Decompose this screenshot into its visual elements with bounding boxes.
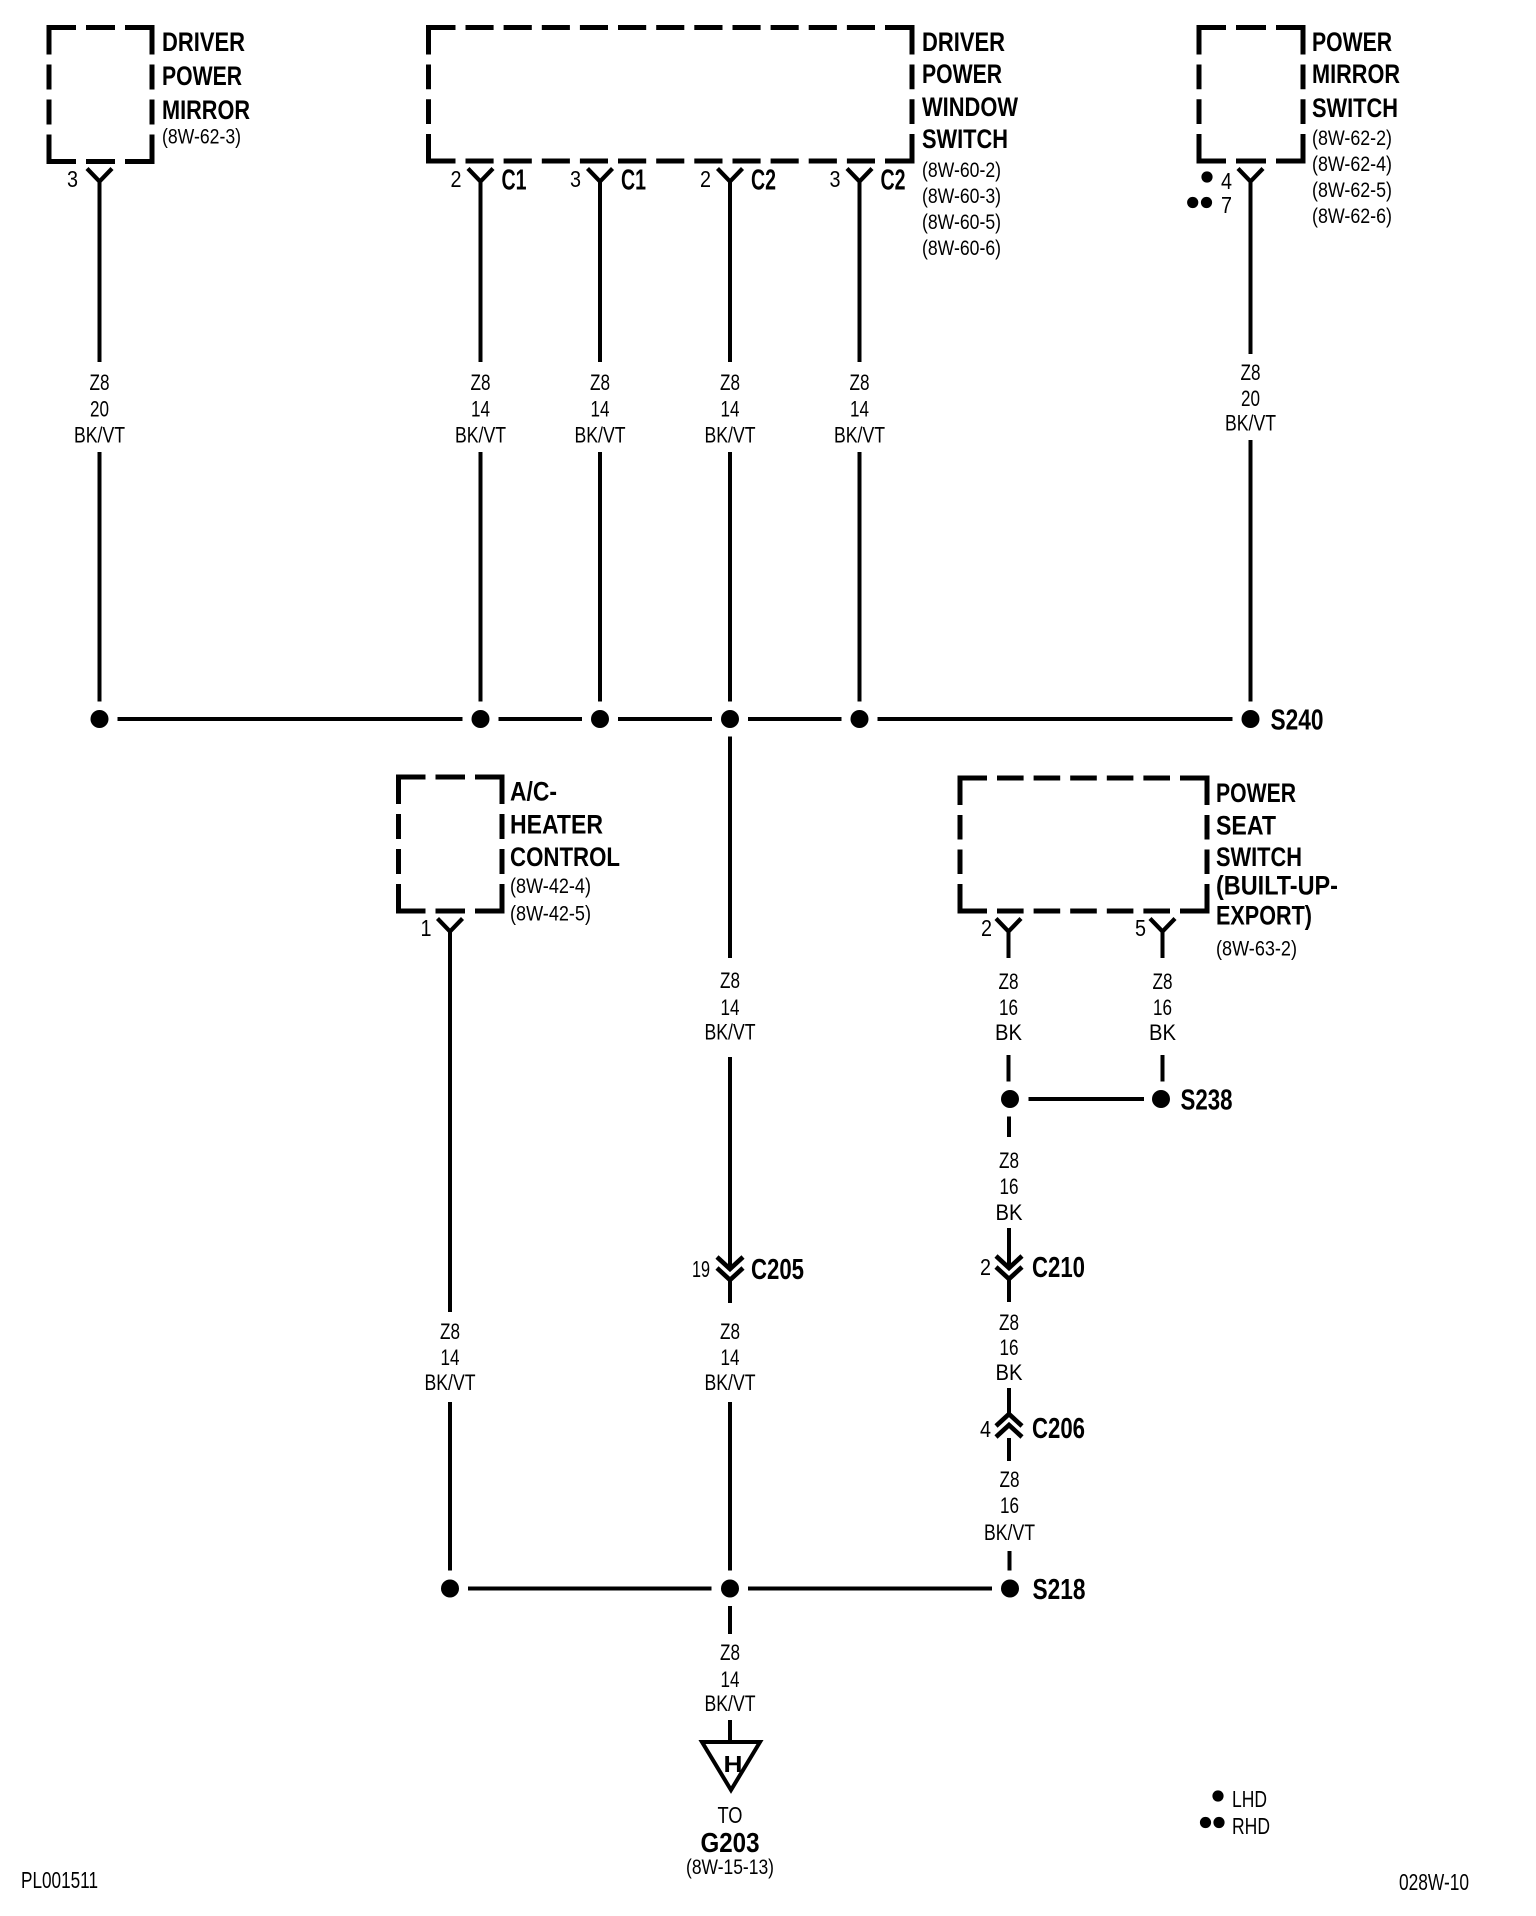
wire label Z8 14 BK/VT (below C205) [705, 1319, 756, 1395]
svg-text:Z8: Z8 [440, 1319, 460, 1344]
svg-text:2: 2 [700, 166, 711, 192]
wire label Z8 20 BK/VT (right) [1225, 360, 1276, 436]
wire below C210 [1007, 1279, 1011, 1302]
splice S240 bus wire segment 5 [878, 717, 1233, 721]
svg-text:Z8: Z8 [471, 370, 491, 395]
svg-text:SWITCH: SWITCH [922, 124, 1008, 154]
pin 1 of a/c-heater control [421, 915, 463, 941]
wire to S238 (pin 2 branch) [1007, 1055, 1011, 1082]
wire from window switch pin at x=600 (upper) [598, 182, 602, 363]
svg-text:POWER: POWER [922, 59, 1002, 89]
svg-text:(8W-60-3): (8W-60-3) [922, 184, 1001, 208]
TO G203 label [686, 1802, 774, 1879]
svg-text:14: 14 [721, 995, 740, 1020]
svg-text:Z8: Z8 [90, 370, 110, 395]
driver power window switch connector box [429, 27, 1019, 260]
wire down to S218 (a/c branch) [448, 1402, 452, 1571]
junction dot at pin2 C2 branch [721, 710, 739, 728]
junction dot S238 right [1152, 1090, 1170, 1108]
svg-text:SEAT: SEAT [1216, 811, 1276, 841]
wire from seat switch pin 5 [1161, 932, 1165, 959]
svg-text:14: 14 [441, 1345, 460, 1370]
svg-text:(8W-42-4): (8W-42-4) [510, 874, 591, 898]
svg-text:(8W-62-3): (8W-62-3) [162, 125, 241, 149]
svg-text:CONTROL: CONTROL [510, 842, 620, 872]
wire below S240 (center) [728, 737, 732, 959]
pin 2 C1 of window switch [451, 165, 527, 197]
junction dot at mirror branch [91, 710, 109, 728]
wire from mirror pin 3 (lower) [98, 452, 102, 702]
svg-text:16: 16 [1153, 995, 1172, 1020]
connector C206 symbol (pin 4) [980, 1413, 1085, 1445]
junction dot at pin2 C1 branch [472, 710, 490, 728]
wire down to S218 (center) [728, 1402, 732, 1571]
svg-text:HEATER: HEATER [510, 810, 603, 840]
svg-text:EXPORT): EXPORT) [1216, 901, 1312, 931]
wire from window switch pin at x=859.5 (lower) [858, 452, 862, 702]
wire label Z8 14 BK/VT (center mid) [705, 968, 756, 1045]
wire from power mirror switch pin (lower) [1249, 440, 1253, 702]
svg-text:16: 16 [1000, 1335, 1019, 1360]
svg-text:WINDOW: WINDOW [922, 92, 1018, 122]
wire below S238 [1007, 1117, 1011, 1138]
ground symbol H (triangle) [702, 1742, 760, 1790]
svg-text:MIRROR: MIRROR [1312, 59, 1400, 89]
svg-text:S218: S218 [1033, 1574, 1086, 1606]
svg-text:2: 2 [981, 915, 992, 941]
splice S240 bus wire segment 4 [748, 717, 842, 721]
svg-text:BK/VT: BK/VT [705, 1691, 756, 1716]
svg-text:14: 14 [471, 397, 490, 422]
svg-text:5: 5 [1135, 915, 1146, 941]
wire below C206 [1007, 1438, 1011, 1461]
svg-text:Z8: Z8 [999, 1310, 1019, 1335]
svg-text:C205: C205 [751, 1254, 804, 1286]
svg-text:Z8: Z8 [720, 1640, 740, 1665]
wire label Z8 16 BK (pin 5 branch) [1149, 969, 1176, 1045]
svg-text:C2: C2 [751, 165, 776, 197]
junction dot S240 [1242, 710, 1260, 728]
svg-text:(8W-60-2): (8W-60-2) [922, 158, 1001, 182]
svg-text:POWER: POWER [1216, 778, 1296, 808]
svg-text:16: 16 [999, 995, 1018, 1020]
svg-text:LHD: LHD [1232, 1786, 1267, 1812]
power seat switch connector box [960, 778, 1338, 961]
junction dot S238 left [1001, 1090, 1019, 1108]
wire from window switch pin at x=480.5 (upper) [479, 182, 483, 363]
svg-text:(8W-42-5): (8W-42-5) [510, 902, 591, 926]
svg-text:BK/VT: BK/VT [74, 423, 125, 448]
svg-text:4: 4 [1221, 168, 1232, 194]
wire down to S218 (seat branch) [1008, 1551, 1012, 1571]
splice S238 horizontal wire [1029, 1097, 1145, 1101]
svg-text:S238: S238 [1181, 1085, 1233, 1117]
a/c-heater control connector box [399, 777, 621, 926]
svg-text:S240: S240 [1271, 705, 1324, 737]
svg-text:1: 1 [421, 915, 432, 941]
svg-text:(8W-60-5): (8W-60-5) [922, 210, 1001, 234]
svg-text:Z8: Z8 [1000, 1467, 1020, 1492]
wire label Z8 16 BK (below S238) [996, 1148, 1023, 1225]
wire to S238 (pin 5 branch) [1161, 1055, 1165, 1082]
svg-text:C1: C1 [621, 165, 646, 197]
svg-text:Z8: Z8 [999, 969, 1019, 994]
wire from window switch pin at x=480.5 (lower) [479, 452, 483, 702]
svg-text:G203: G203 [701, 1827, 760, 1858]
wire label Z8 14 BK/VT [705, 370, 756, 448]
svg-text:RHD: RHD [1232, 1813, 1270, 1839]
wire label Z8 14 BK/VT (ground lead) [705, 1640, 756, 1716]
junction dot at pin3 C2 branch [851, 710, 869, 728]
svg-text:C1: C1 [502, 165, 527, 197]
wire from power mirror switch pin (upper) [1249, 182, 1253, 355]
svg-text:(BUILT-UP-: (BUILT-UP- [1216, 871, 1338, 901]
svg-text:Z8: Z8 [850, 370, 870, 395]
svg-text:C2: C2 [881, 165, 906, 197]
pin 2 C2 of window switch [700, 165, 776, 197]
svg-text:DRIVER: DRIVER [162, 27, 245, 57]
svg-text:BK/VT: BK/VT [705, 1370, 756, 1395]
pin 3 of driver power mirror [67, 166, 112, 192]
wire down to C205 [728, 1057, 732, 1268]
legend RHD [1200, 1813, 1270, 1839]
pin 3 C1 of window switch [570, 165, 646, 197]
wire below C205 [728, 1280, 732, 1303]
pin 2 of power seat switch [981, 915, 1021, 941]
svg-text:MIRROR: MIRROR [162, 95, 250, 125]
svg-text:DRIVER: DRIVER [922, 27, 1005, 57]
svg-text:Z8: Z8 [720, 1319, 740, 1344]
legend LHD [1212, 1786, 1267, 1812]
svg-text:16: 16 [1000, 1174, 1019, 1199]
pins 4 (LHD) / 7 (RHD) of power mirror switch [1187, 168, 1263, 218]
wire below S218 [728, 1606, 732, 1634]
connector C205 symbol (pin 19) [692, 1254, 804, 1286]
svg-text:(8W-62-6): (8W-62-6) [1312, 204, 1392, 228]
wire from window switch pin at x=730 (upper) [728, 182, 732, 363]
wire label Z8 14 BK/VT [834, 370, 885, 448]
wire from window switch pin at x=600 (lower) [598, 452, 602, 702]
junction dot at a/c branch [441, 1580, 459, 1598]
svg-text:(8W-63-2): (8W-63-2) [1216, 937, 1297, 961]
wire from window switch pin at x=730 (lower) [728, 452, 732, 702]
svg-text:BK/VT: BK/VT [575, 423, 626, 448]
splice S218 bus wire segment 2 [748, 1587, 992, 1591]
wire from window switch pin at x=859.5 (upper) [858, 182, 862, 363]
pin 3 C2 of window switch [830, 165, 906, 197]
svg-text:20: 20 [90, 397, 109, 422]
svg-text:3: 3 [67, 166, 78, 192]
wire label Z8 16 BK (below C210) [996, 1310, 1023, 1385]
splice S240 bus wire segment 3 [618, 717, 712, 721]
svg-text:BK/VT: BK/VT [705, 1020, 756, 1045]
svg-text:Z8: Z8 [590, 370, 610, 395]
wire label Z8 16 BK/VT (below C206) [984, 1467, 1035, 1545]
wire from seat switch pin 2 [1007, 932, 1011, 959]
splice S240 bus wire segment 1 [118, 717, 463, 721]
svg-text:14: 14 [721, 1345, 740, 1370]
wire label Z8 20 BK/VT (left) [74, 370, 125, 448]
junction dot at pin3 C1 branch [591, 710, 609, 728]
svg-text:POWER: POWER [1312, 27, 1392, 57]
svg-text:BK/VT: BK/VT [984, 1520, 1035, 1545]
svg-text:BK/VT: BK/VT [455, 423, 506, 448]
svg-text:Z8: Z8 [999, 1148, 1019, 1173]
svg-text:PL001511: PL001511 [21, 1867, 98, 1893]
svg-text:(8W-60-6): (8W-60-6) [922, 236, 1001, 260]
svg-text:7: 7 [1221, 192, 1232, 218]
svg-text:14: 14 [591, 397, 610, 422]
svg-text:Z8: Z8 [1153, 969, 1173, 994]
svg-text:2: 2 [980, 1254, 991, 1280]
svg-text:2: 2 [451, 166, 462, 192]
svg-text:SWITCH: SWITCH [1312, 93, 1398, 123]
svg-text:Z8: Z8 [1241, 360, 1261, 385]
wire from mirror pin 3 (upper) [98, 182, 102, 363]
wire label Z8 16 BK (pin 2 branch) [995, 969, 1022, 1045]
svg-text:(8W-15-13): (8W-15-13) [686, 1855, 774, 1879]
svg-text:19: 19 [692, 1256, 710, 1282]
svg-text:3: 3 [570, 166, 581, 192]
svg-text:BK: BK [995, 1020, 1022, 1045]
svg-text:14: 14 [721, 397, 740, 422]
svg-text:14: 14 [850, 397, 869, 422]
svg-text:C206: C206 [1032, 1413, 1085, 1445]
splice S218 bus wire segment 1 [468, 1587, 712, 1591]
wire down to C206 [1007, 1388, 1011, 1414]
wire into ground symbol [728, 1720, 732, 1742]
svg-text:A/C-: A/C- [510, 777, 557, 807]
svg-text:BK/VT: BK/VT [705, 423, 756, 448]
svg-text:POWER: POWER [162, 61, 242, 91]
svg-text:20: 20 [1241, 386, 1260, 411]
wire label Z8 14 BK/VT [575, 370, 626, 448]
svg-text:BK/VT: BK/VT [834, 423, 885, 448]
svg-text:(8W-62-2): (8W-62-2) [1312, 126, 1392, 150]
wire label Z8 14 BK/VT [455, 370, 506, 448]
wire from a/c-heater pin 1 [448, 932, 452, 1313]
svg-text:14: 14 [721, 1667, 740, 1692]
pin 5 of power seat switch [1135, 915, 1175, 941]
splice S240 bus wire segment 2 [499, 717, 583, 721]
svg-text:(8W-62-5): (8W-62-5) [1312, 178, 1392, 202]
svg-text:BK: BK [1149, 1020, 1176, 1045]
svg-text:TO: TO [718, 1802, 743, 1828]
svg-text:C210: C210 [1032, 1252, 1085, 1284]
svg-text:Z8: Z8 [720, 968, 740, 993]
svg-text:028W-10: 028W-10 [1399, 1869, 1469, 1895]
svg-text:BK/VT: BK/VT [1225, 411, 1276, 436]
svg-text:Z8: Z8 [720, 370, 740, 395]
junction dot S218 [1001, 1580, 1019, 1598]
svg-text:4: 4 [980, 1416, 991, 1442]
junction dot at center branch [721, 1580, 739, 1598]
svg-text:BK: BK [996, 1200, 1023, 1225]
svg-text:16: 16 [1000, 1493, 1019, 1518]
svg-text:H: H [724, 1751, 743, 1777]
svg-text:BK/VT: BK/VT [425, 1370, 476, 1395]
connector C210 symbol (pin 2) [980, 1252, 1085, 1284]
driver power mirror connector box [49, 27, 250, 162]
wire down to C210 [1007, 1228, 1011, 1267]
svg-text:3: 3 [830, 166, 841, 192]
wire label Z8 14 BK/VT (a/c branch) [425, 1319, 476, 1395]
svg-text:SWITCH: SWITCH [1216, 842, 1302, 872]
svg-text:(8W-62-4): (8W-62-4) [1312, 152, 1392, 176]
power mirror switch connector box [1199, 27, 1400, 228]
svg-text:BK: BK [996, 1360, 1023, 1385]
